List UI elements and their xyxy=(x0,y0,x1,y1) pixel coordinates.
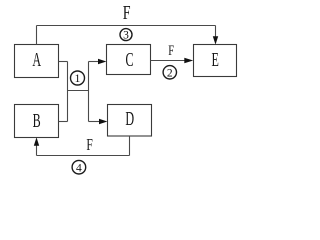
block E xyxy=(194,45,237,77)
svg-text:4: 4 xyxy=(76,162,82,174)
wire into D xyxy=(89,121,100,123)
wire C to E xyxy=(151,60,185,62)
svg-text:2: 2 xyxy=(167,67,173,79)
arrowhead into B bottom xyxy=(34,137,39,145)
wire right vertical xyxy=(88,62,90,122)
wire A-top riser xyxy=(36,26,38,45)
arrowhead into D xyxy=(99,119,107,124)
wire into C xyxy=(89,61,99,63)
svg-text:B: B xyxy=(33,110,41,132)
wire A output xyxy=(59,61,68,63)
svg-text:F: F xyxy=(168,41,174,58)
wire left vertical xyxy=(67,62,69,122)
wire B output xyxy=(59,121,68,123)
wire drop into E top xyxy=(215,26,217,37)
block C xyxy=(107,45,151,75)
svg-text:A: A xyxy=(32,49,41,71)
label circle 4 xyxy=(72,160,86,174)
svg-text:F: F xyxy=(86,136,92,155)
svg-text:3: 3 xyxy=(123,30,129,42)
arrowhead into E top xyxy=(213,36,218,44)
wire riser into B bottom xyxy=(36,145,38,156)
arrowhead into C xyxy=(98,59,106,64)
label circle 3 xyxy=(120,29,132,42)
wire top F line xyxy=(37,25,216,27)
wire crossbar xyxy=(68,90,89,92)
arrowhead into E left xyxy=(184,58,193,63)
svg-text:F: F xyxy=(123,2,131,24)
wire bottom F line xyxy=(37,155,130,157)
wire D bottom drop xyxy=(129,136,131,156)
svg-text:C: C xyxy=(125,49,133,71)
svg-text:E: E xyxy=(212,49,219,71)
svg-text:1: 1 xyxy=(75,71,81,85)
label circle 1 xyxy=(71,71,85,85)
label circle 2 xyxy=(163,66,176,80)
block D xyxy=(108,105,152,137)
block A xyxy=(15,45,59,78)
block B xyxy=(15,105,59,138)
svg-text:D: D xyxy=(125,108,134,130)
